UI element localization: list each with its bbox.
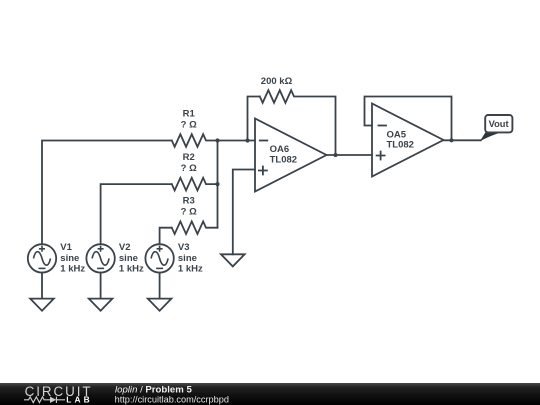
svg-text:LAB: LAB xyxy=(66,394,93,404)
svg-text:http://circuitlab.com/ccrpbpd: http://circuitlab.com/ccrpbpd xyxy=(115,394,229,404)
